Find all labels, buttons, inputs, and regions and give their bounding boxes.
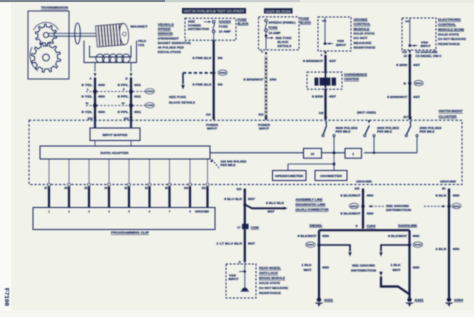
wire 1 lt blu blk 807 [244, 229, 246, 261]
svg-text:MEASURE: MEASURE [354, 41, 372, 45]
svg-text:437: 437 [329, 94, 337, 98]
diesel/gasoline header line [319, 229, 410, 231]
see ground distribution (upper) [369, 205, 372, 207]
svg-text:POWER: POWER [258, 123, 270, 127]
svg-text:RESISTANCE: RESISTANCE [438, 42, 460, 46]
speedo fuse F2 [265, 19, 268, 22]
svg-text:DETAILS: DETAILS [278, 45, 292, 48]
tap 2 not used [368, 120, 371, 123]
svg-text:1 BLK: 1 BLK [302, 264, 312, 267]
wire stubs into buffer [94, 121, 96, 128]
svg-text:B: B [239, 260, 241, 264]
svg-text:A: A [261, 50, 263, 54]
header hot in run bulb test or start [182, 8, 246, 14]
dashed branch to fuse details [183, 72, 212, 74]
svg-text:M: M [404, 81, 406, 85]
svg-text:VSS: VSS [421, 41, 429, 44]
programming clip box [33, 208, 215, 230]
svg-text:8 PPL: 8 PPL [118, 110, 130, 114]
svg-text:TRANSMISSION: TRANSMISSION [41, 6, 68, 10]
svg-text:B10: B10 [184, 188, 189, 190]
svg-text:ANTI-LOCK: ANTI-LOCK [259, 271, 279, 275]
svg-text:A: A [89, 76, 91, 80]
svg-text:SEE GROUND: SEE GROUND [386, 205, 409, 208]
svg-text:(ALDL) CONNECTOR: (ALDL) CONNECTOR [296, 209, 329, 212]
svg-text:400: 400 [98, 83, 106, 87]
svg-text:DISTRIBUTION: DISTRIBUTION [386, 209, 411, 212]
svg-text:REAR WHEEL: REAR WHEEL [259, 266, 281, 270]
svg-text:B11: B11 [202, 188, 207, 190]
svg-text:24: 24 [311, 152, 315, 156]
svg-text:(NOT USED): (NOT USED) [357, 111, 376, 115]
svg-text:C210: C210 [146, 91, 154, 93]
svg-text:SOLID STATE: SOLID STATE [259, 281, 280, 285]
svg-text:ELECTRONIC: ELECTRONIC [438, 18, 462, 22]
svg-text:REVOLUTION: REVOLUTION [158, 50, 181, 54]
svg-text:COIL: COIL [138, 43, 145, 47]
svg-text:8 BRN/WHT: 8 BRN/WHT [244, 77, 264, 81]
svg-text:INPUT: INPUT [259, 127, 269, 131]
svg-text:(PERMANENT: (PERMANENT [158, 36, 179, 40]
svg-text:2 BLK: 2 BLK [436, 247, 447, 251]
wire 8 blu blk 807 [244, 189, 246, 225]
ECM box U1 [402, 18, 436, 50]
branch to see ground distribution [319, 245, 350, 252]
svg-text:K10: K10 [402, 50, 407, 54]
field coil housing [84, 41, 137, 63]
svg-text:2000 PULSES: 2000 PULSES [420, 127, 443, 130]
wire pnk-blk from gages fuse [213, 33, 215, 41]
svg-text:GAGES: GAGES [219, 20, 231, 24]
rotation ellipse [75, 23, 81, 44]
svg-text:PROGRAMMING CLIP: PROGRAMMING CLIP [111, 231, 149, 235]
fuse block 2 box [259, 17, 300, 50]
svg-text:A: A [321, 53, 323, 57]
svg-text:401: 401 [134, 83, 142, 87]
svg-text:CONTROL: CONTROL [354, 22, 371, 26]
svg-text:A5: A5 [404, 54, 408, 58]
svg-text:S102: S102 [414, 245, 422, 247]
svg-text:8 PNK-BLK: 8 PNK-BLK [193, 56, 212, 60]
svg-text:CONTROL: CONTROL [438, 23, 456, 27]
svg-text:1 LT BLU BLK: 1 LT BLU BLK [216, 242, 242, 246]
svg-text:RESISTANCE: RESISTANCE [259, 291, 281, 295]
svg-text:FUSE: FUSE [219, 25, 228, 29]
tap 3 from B17 [410, 121, 412, 125]
svg-text:8 BRN/WHT: 8 BRN/WHT [387, 95, 407, 99]
svg-text:WHT: WHT [304, 269, 313, 272]
svg-text:437: 437 [413, 95, 421, 99]
svg-text:RATIO ADAPTER: RATIO ADAPTER [101, 151, 129, 155]
svg-text:MODULE (ECM): MODULE (ECM) [438, 27, 464, 31]
svg-text:SENSOR: SENSOR [158, 32, 174, 36]
svg-text:437: 437 [329, 59, 337, 63]
svg-text:F7198: F7198 [3, 288, 9, 306]
svg-text:G101: G101 [415, 299, 425, 302]
svg-text:BLOCK: BLOCK [238, 21, 249, 25]
ground G304 [447, 298, 451, 302]
svg-text:2000 PULSES: 2000 PULSES [377, 127, 400, 130]
svg-text:8 YEL: 8 YEL [82, 110, 94, 114]
odometer [333, 164, 335, 171]
svg-text:C100: C100 [146, 105, 154, 107]
speedometer [273, 171, 307, 181]
svg-text:SPEED: SPEED [158, 27, 172, 31]
svg-text:SEE FUSE: SEE FUSE [276, 37, 292, 40]
svg-text:G304: G304 [454, 299, 464, 302]
svg-text:PER MILE: PER MILE [420, 131, 436, 134]
svg-text:SEE GROUND: SEE GROUND [352, 265, 375, 268]
svg-text:VSS: VSS [229, 275, 237, 277]
svg-text:INPUT: INPUT [207, 127, 217, 131]
svg-text:MAGNET: MAGNET [131, 25, 148, 29]
gear arcs [34, 22, 59, 30]
svg-text:HOT IN RUN: HOT IN RUN [266, 10, 291, 14]
svg-text:8 BLK/WHT: 8 BLK/WHT [341, 193, 361, 197]
svg-text:401: 401 [134, 95, 142, 99]
main line ratio adapter to taps [210, 152, 303, 154]
svg-text:10 AMP: 10 AMP [219, 30, 231, 34]
svg-text:450: 450 [453, 247, 461, 251]
svg-text:A16: A16 [319, 111, 324, 115]
splice S292 [212, 71, 215, 74]
connector C210 [86, 91, 145, 93]
branch to ALDL [243, 203, 246, 206]
svg-text:CONVENIENCE: CONVENIENCE [344, 72, 367, 76]
svg-text:FUSE: FUSE [269, 27, 278, 30]
transmission case [28, 11, 69, 79]
shaft [48, 32, 97, 34]
svg-text:400: 400 [98, 95, 106, 99]
svg-text:S107: S107 [307, 245, 315, 247]
svg-text:450: 450 [367, 193, 375, 197]
svg-text:4000 PULSES: 4000 PULSES [336, 127, 359, 130]
svg-text:450: 450 [322, 266, 330, 269]
gear small [35, 24, 56, 46]
svg-text:250: 250 [270, 77, 278, 81]
svg-text:C100: C100 [251, 226, 260, 229]
svg-text:SOLID STATE: SOLID STATE [438, 32, 459, 36]
svg-text:DO NOT MEASURE: DO NOT MEASURE [259, 286, 288, 290]
gages fuse F1 [212, 20, 215, 23]
svg-text:SOLID STATE: SOLID STATE [354, 32, 375, 36]
svg-text:GROUND: GROUND [195, 211, 209, 214]
svg-text:GASOLINE: GASOLINE [398, 224, 417, 227]
wire VSS yellow [94, 63, 96, 72]
svg-text:10 AMP: 10 AMP [269, 32, 281, 35]
convenience center box [307, 72, 342, 89]
thick wires to programming clip [48, 187, 50, 209]
fuse block 1 box [185, 18, 236, 40]
svg-text:8 BLK/WHT: 8 BLK/WHT [298, 235, 318, 238]
svg-text:8 BLU BLK: 8 BLU BLK [266, 202, 284, 205]
svg-text:450: 450 [413, 266, 421, 269]
svg-text:B15: B15 [355, 187, 360, 191]
svg-text:1 BLK: 1 BLK [391, 264, 401, 267]
wire VSS purple [130, 63, 132, 72]
ratio adapter [40, 146, 210, 159]
svg-text:DIESEL: DIESEL [310, 224, 324, 227]
svg-text:GROUND: GROUND [440, 179, 456, 183]
svg-text:A2A: A2A [405, 20, 410, 23]
svg-text:POWER: POWER [206, 123, 218, 127]
gear large [31, 43, 60, 72]
svg-text:PER MILE: PER MILE [377, 131, 393, 134]
svg-text:INPUT BUFFER: INPUT BUFFER [103, 133, 128, 137]
svg-text:B6: B6 [442, 187, 446, 191]
svg-text:8 PPL: 8 PPL [118, 83, 130, 87]
svg-text:8 BLK/WHT: 8 BLK/WHT [341, 212, 361, 216]
svg-text:DISTRIBUTION: DISTRIBUTION [188, 27, 209, 31]
svg-text:MODULE: MODULE [354, 27, 370, 31]
splice S212 [361, 205, 364, 208]
svg-text:ODOMETER: ODOMETER [320, 175, 342, 178]
splice S107 [317, 243, 320, 246]
svg-text:B13: B13 [88, 116, 93, 120]
ground G101 [407, 298, 411, 302]
wire 8 blk/wht 450 left [362, 189, 364, 229]
svg-text:450: 450 [453, 193, 461, 197]
gasoline ground wire [408, 230, 410, 297]
svg-text:401: 401 [134, 110, 142, 114]
svg-text:8 BRN: 8 BRN [312, 94, 323, 98]
svg-text:S211: S211 [415, 83, 423, 85]
svg-text:PER MILE: PER MILE [336, 131, 352, 134]
splice S102 [408, 243, 411, 246]
svg-text:C203: C203 [367, 225, 377, 228]
svg-text:A2A: A2A [322, 19, 327, 22]
input buffer [90, 128, 140, 141]
svg-text:DO NOT: DO NOT [354, 36, 368, 40]
rear wheel abs module box [226, 264, 256, 298]
svg-text:8 BLK/WHT: 8 BLK/WHT [388, 235, 408, 238]
wire 8 brn 437 to cluster [324, 89, 326, 120]
diesel ground wire [318, 230, 320, 297]
svg-text:39: 39 [218, 83, 224, 87]
coil winding [96, 54, 104, 62]
header hot in run [264, 8, 293, 13]
buzzer component [315, 78, 337, 86]
svg-text:8 BLK: 8 BLK [436, 193, 447, 197]
svg-text:C7: C7 [237, 225, 241, 229]
svg-text:INPUT: INPUT [336, 44, 347, 47]
wire 8 brn 437 [409, 54, 411, 120]
svg-text:DISTRIBUTION: DISTRIBUTION [351, 270, 376, 273]
ratio adapter output wires [48, 159, 50, 183]
svg-text:S211: S211 [453, 206, 461, 208]
svg-text:450: 450 [367, 212, 375, 216]
svg-text:CENTER: CENTER [344, 77, 359, 81]
svg-text:450: 450 [413, 235, 421, 238]
svg-text:DO NOT MEASURE: DO NOT MEASURE [438, 37, 466, 41]
cruise control module box [318, 17, 351, 51]
speedometer bracket [288, 163, 334, 165]
svg-text:BLOCK DETAILS: BLOCK DETAILS [169, 100, 195, 104]
svg-text:SEE FUSE: SEE FUSE [169, 95, 186, 99]
svg-text:MAGNET GENERATOR): MAGNET GENERATOR) [158, 41, 191, 45]
svg-text:INPUT: INPUT [229, 279, 240, 281]
svg-text:A10: A10 [206, 112, 211, 116]
connector C100 [86, 105, 145, 107]
svg-text:B14: B14 [124, 116, 129, 120]
instrument cluster boundary [29, 120, 462, 184]
svg-text:S292: S292 [219, 73, 227, 75]
see fuse block details arrow [265, 35, 268, 38]
svg-text:8 PPL: 8 PPL [118, 95, 130, 99]
svg-text:807: 807 [268, 210, 276, 213]
svg-text:SPEEDO (PANEL): SPEEDO (PANEL) [269, 22, 296, 25]
svg-text:8 BRN/WHT: 8 BRN/WHT [303, 59, 323, 63]
svg-text:C2 GASOLINE: C2 GASOLINE [416, 51, 439, 54]
svg-text:807: 807 [248, 242, 256, 246]
svg-text:N: N [356, 224, 358, 228]
svg-text:WHT: WHT [393, 269, 402, 272]
svg-text:PER MILE: PER MILE [221, 164, 237, 167]
svg-text:VEHICLE: VEHICLE [158, 23, 174, 27]
splice S211 right [447, 205, 450, 208]
svg-text:8 BRN: 8 BRN [396, 63, 407, 67]
svg-text:40 PULSES PER: 40 PULSES PER [158, 45, 185, 49]
svg-text:8 PNK-BLK: 8 PNK-BLK [193, 83, 212, 87]
svg-text:SPEEDOMETER: SPEEDOMETER [275, 175, 303, 178]
svg-text:8 YEL: 8 YEL [82, 95, 94, 99]
svg-text:HOT IN RUN, BULB TEST OR START: HOT IN RUN, BULB TEST OR START [184, 9, 244, 13]
pulses per mile note [212, 160, 219, 169]
magnet rotor [96, 23, 130, 47]
ground G111 [317, 298, 321, 302]
svg-text:CLUSTER: CLUSTER [439, 114, 458, 118]
svg-text:437: 437 [413, 63, 421, 67]
joining wire to G101 [379, 272, 382, 276]
svg-text:ASSEMBLY LINE: ASSEMBLY LINE [296, 199, 323, 202]
buffer to ratio adapter stubs [94, 141, 96, 147]
branch from gasoline wire to see ground [381, 245, 410, 252]
svg-text:400: 400 [98, 110, 106, 114]
divider box 24 [304, 148, 322, 158]
svg-text:807: 807 [248, 197, 256, 201]
svg-text:GROUND: GROUND [356, 179, 372, 183]
svg-text:C2 DIESEL VIN C: C2 DIESEL VIN C [416, 55, 442, 58]
svg-text:B16: B16 [259, 112, 264, 116]
svg-text:S212: S212 [351, 206, 359, 208]
svg-text:VSS: VSS [337, 40, 345, 43]
svg-text:39: 39 [218, 56, 224, 60]
tap 1 from A16 [325, 121, 327, 125]
svg-text:B: B [125, 76, 127, 80]
svg-text:450: 450 [322, 235, 330, 238]
wire 8 blk 450 [448, 189, 450, 298]
svg-text:G111: G111 [324, 299, 334, 302]
svg-text:DIAGNOSTIC LINK: DIAGNOSTIC LINK [296, 204, 326, 207]
svg-text:BLOCK: BLOCK [278, 41, 289, 44]
svg-text:B12: B12 [237, 187, 242, 191]
svg-text:B17: B17 [404, 115, 409, 119]
svg-text:RESISTANCE: RESISTANCE [354, 46, 376, 50]
svg-text:8 YEL: 8 YEL [82, 83, 94, 87]
svg-text:100 000 PULSES: 100 000 PULSES [221, 160, 248, 163]
svg-text:BLOCK: BLOCK [300, 21, 311, 25]
svg-text:8 BLU BLK: 8 BLU BLK [224, 197, 242, 201]
svg-text:INPUT: INPUT [421, 45, 432, 48]
svg-text:CRUISE: CRUISE [354, 17, 368, 21]
svg-text:BRAKE MODULE: BRAKE MODULE [259, 276, 285, 280]
svg-text:INSTRUMENT: INSTRUMENT [439, 109, 463, 113]
divider box 2 [345, 148, 362, 158]
